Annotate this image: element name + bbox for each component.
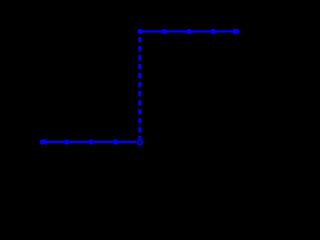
marker at k=-3 — [64, 139, 69, 144]
arrowhead left end of lower branch — [40, 139, 47, 146]
arrowhead right end of upper branch — [234, 28, 241, 35]
wire: upper branch y=1 line segment — [140, 30, 237, 32]
marker at k=4 under arrow — [234, 29, 239, 34]
marker at k=1 — [162, 29, 167, 34]
marker at k=2 — [186, 29, 191, 34]
marker at k=0 (filled, jump top) — [137, 29, 142, 34]
wire: dashed vertical jump connector at x=0 — [138, 37, 141, 139]
wire: lower branch y=1 line segment — [40, 141, 137, 143]
marker at k=-1 — [113, 139, 118, 144]
marker at k=-4 — [40, 139, 45, 144]
node: open circle at jump point (0, lower) — [138, 140, 143, 145]
marker at k=3 — [211, 29, 216, 34]
marker at k=-2 — [89, 139, 94, 144]
